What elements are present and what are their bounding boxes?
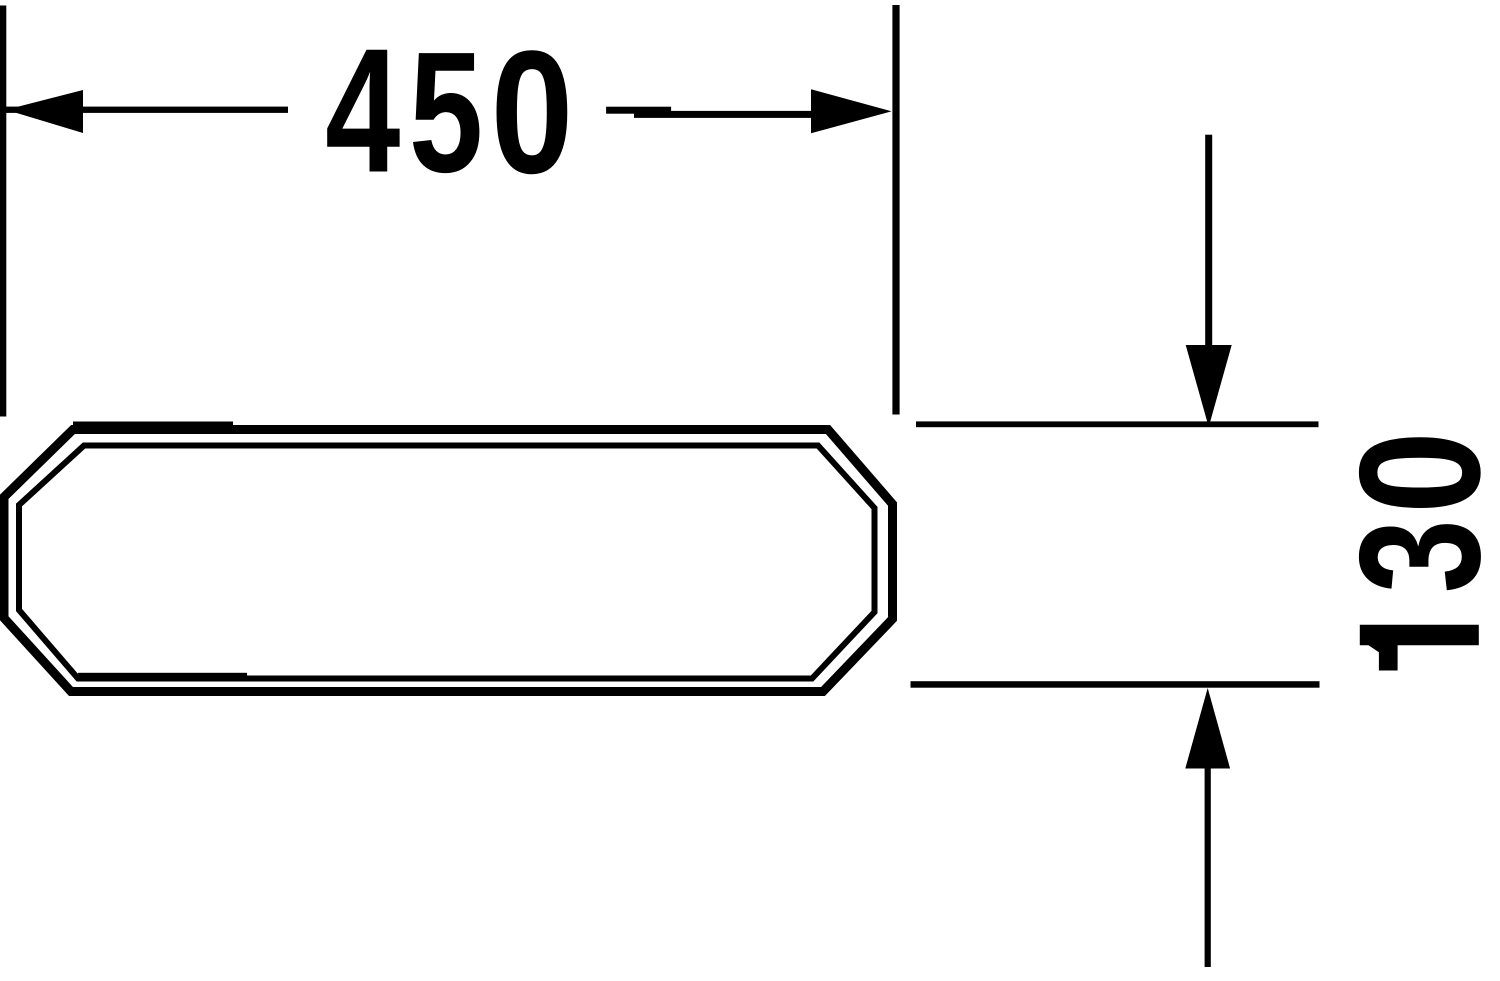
dimension line 450 left segment xyxy=(6,107,288,113)
svg-text:0: 0 xyxy=(491,15,574,210)
arrowhead right (450 dim) xyxy=(811,89,892,133)
arrowhead down (130 dim) xyxy=(1186,345,1232,427)
octagon inner bottom-left thick step xyxy=(78,673,247,680)
dimension line 130 upper segment xyxy=(1205,135,1212,347)
dimension line 450 right segment xyxy=(606,107,671,114)
extension line top (130 dim) xyxy=(916,421,1319,427)
octagon outer top-left thick step xyxy=(73,422,233,428)
extension line right (450 dim) xyxy=(892,5,899,415)
octagon inner outline xyxy=(19,446,875,679)
label 130 digit 1 (rotated, drawn) xyxy=(1360,625,1479,671)
arrowhead left (450 dim) xyxy=(6,90,83,133)
svg-text:4: 4 xyxy=(325,12,400,210)
svg-text:5: 5 xyxy=(409,16,483,208)
svg-text:0: 0 xyxy=(1324,431,1500,514)
arrowhead up (130 dim) xyxy=(1185,688,1230,769)
svg-text:3: 3 xyxy=(1323,519,1500,593)
dimension line 130 lower segment xyxy=(1205,768,1211,967)
extension line left (450 dim) xyxy=(0,6,6,417)
extension line bottom (130 dim) xyxy=(911,681,1320,688)
dimension line 450 right segment lower stair xyxy=(634,111,812,118)
octagon outer outline xyxy=(4,430,893,692)
